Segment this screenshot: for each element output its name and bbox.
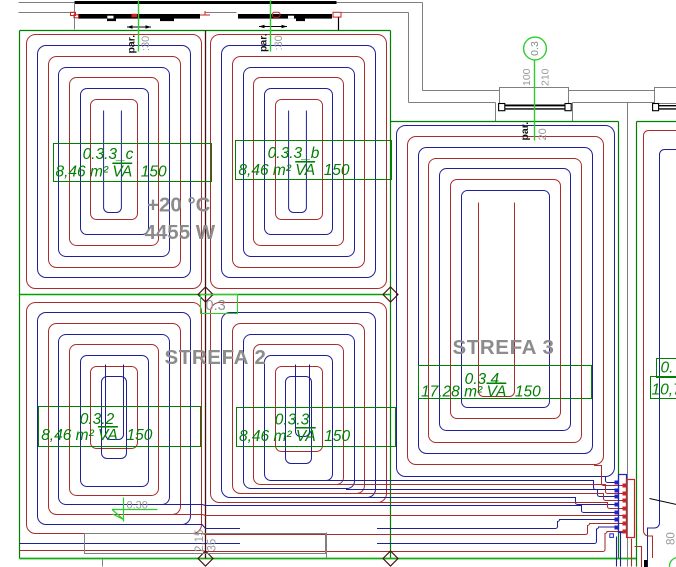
window W1 (black bar) (78, 14, 200, 19)
pipe run zone C r6 (red) (193, 524, 623, 535)
heating loop 0.3.4 ring 3 (419, 148, 593, 454)
zone E border right (green) (618, 122, 620, 559)
zone E border top (green) (391, 121, 619, 123)
svg-text:35: 35 (207, 539, 219, 552)
wall top lintel (black) (75, 1, 337, 4)
heating loop 0.3.2 ring 3 (49, 324, 181, 515)
pipe run zone D b3 (blue) (346, 490, 615, 497)
svg-text:0.3.3: 0.3.3 (275, 412, 310, 429)
manifold return bar (blue) (619, 475, 627, 533)
wall inner vertical right (408, 13, 410, 103)
wall inner horizontal right of W3 (573, 102, 676, 104)
window W3 end blocks (499, 104, 505, 111)
heating loop 0.3.3_b ring 5 (254, 78, 344, 246)
window W3 sill lines (504, 106, 567, 109)
window W4 sill lines (657, 106, 676, 109)
red tee mark on pier (200, 11, 210, 15)
circuit symbol circle 0.3 (524, 37, 547, 60)
svg-text:0.30: 0.30 (127, 500, 148, 512)
pipe run zone D b4 (blue) (367, 498, 615, 505)
window W1 tab 2 (160, 19, 174, 22)
wall reveal left of window W3 (495, 103, 497, 122)
heating loop 0.3.4 ring 2 (408, 137, 604, 465)
window W2 (black bar) (238, 14, 332, 19)
heating loop 0.3.5 (zone F) blue (648, 150, 676, 567)
manifold small open port (610, 534, 614, 538)
pipe run zone C b5 (blue) (161, 505, 615, 513)
heating loop 0.3.3_b ring 4 (244, 68, 355, 257)
node diamond mid-left (198, 287, 213, 302)
label box 0.3.3_c (54, 144, 212, 182)
bottom wall rectangle (85, 534, 326, 554)
heating loop 0.3.3 ring 7 (276, 367, 323, 452)
svg-text:0.3.2: 0.3.2 (80, 411, 115, 428)
zone border vertical x=391 (green) (390, 31, 392, 559)
room divider x=205 (dark) (205, 31, 207, 559)
wall vertical below window W2 (338, 17, 340, 31)
manifold outlet red riser (631, 539, 633, 567)
window W1 notch (107, 16, 113, 19)
heating loop 0.3.2 ring 2 (38, 313, 191, 525)
heating loop 0.3.3_b ring 1 (211, 35, 387, 289)
heating loop 0.3.3 ring 6 (265, 356, 333, 481)
svg-text:STREFA 2: STREFA 2 (165, 346, 267, 369)
heating loop 0.3.3 ring 5 (254, 345, 344, 485)
heating loop 0.3.2 ring 1 (27, 303, 202, 534)
zone border top (green) (20, 30, 391, 32)
pipe run zone D r3 (red) (356, 494, 623, 501)
pipe run zone D r4 (red) (377, 503, 623, 509)
heating loop 0.3.4 ring 4 (429, 159, 582, 443)
leader zone A (green) (138, 1, 140, 52)
heating loop 0.3.3_c center U-turn (104, 111, 122, 213)
window W4 end block (653, 104, 659, 111)
label box 0.3.3 (237, 408, 396, 447)
heating loop 0.3.3_b ring 6 (265, 89, 333, 235)
zone symbol circle bottom right (partial) (670, 558, 676, 567)
svg-text:0.: 0. (661, 360, 674, 377)
svg-text:100: 100 (521, 68, 533, 86)
heating loop 0.3.5 (zone F) outer red (644, 131, 676, 521)
svg-text:8,46 m² VA 150: 8,46 m² VA 150 (56, 164, 168, 181)
window W1 red end mark (71, 12, 76, 15)
leader zone E (green) (534, 61, 536, 141)
manifold red ports (623, 484, 628, 488)
heating loop 0.3.3_b ring 7 (276, 100, 323, 220)
window W2 tab (296, 19, 305, 22)
window W2 notch (288, 16, 294, 19)
heating loop 0.3.3_c ring 7 (91, 100, 138, 220)
heating loop 0.3.3 ring 1 (211, 303, 387, 503)
heating loop 0.3.3_c ring 4 (59, 68, 170, 257)
heating loop 0.3.4 ring 6 (451, 180, 561, 419)
wall outer segment between windows W3-W4 (569, 90, 655, 92)
pipe run zone C b6 (blue) (182, 520, 615, 529)
node diamond bottom-left (198, 551, 213, 566)
wall top inner segment right (341, 12, 409, 14)
wall vertical divider x=627 (627, 103, 629, 567)
heating loop 0.3.4 ring 7 (462, 191, 550, 408)
dimension tick below (102, 560, 104, 567)
pipe run zone D r2 (red) (335, 485, 623, 494)
heating loop 0.3.3_c ring 6 (81, 89, 149, 235)
svg-text:STREFA 3: STREFA 3 (453, 336, 555, 359)
heating loop 0.3.2 center U-turn (106, 365, 124, 440)
dimension arrow at W1 (127, 26, 151, 28)
zone F border top (green) (637, 121, 676, 123)
svg-text:10,7: 10,7 (652, 382, 676, 399)
manifold blue ports (615, 481, 619, 485)
manifold outlet blue riser 2 (616, 537, 618, 567)
drain mark (black) (644, 560, 648, 567)
svg-text:20: 20 (537, 128, 549, 140)
zone middle border (green) (20, 294, 391, 296)
bottom wall inner division (326, 533, 328, 559)
manifold red hook (635, 547, 642, 567)
label box 0.3.3_b (236, 141, 392, 180)
heating loop 0.3.3 ring 3 (233, 324, 365, 494)
manifold outlet blue riser (620, 533, 622, 567)
heating loop 0.3.4 center U-turn (479, 203, 515, 397)
wall pier segment between windows (205, 12, 237, 14)
heating loop 0.3.2 ring 4 (59, 335, 170, 505)
svg-text:17,28 m² VA 150: 17,28 m² VA 150 (421, 384, 541, 401)
svg-text:2,15: 2,15 (194, 530, 206, 552)
pipe run zone C r5 (red) (172, 515, 623, 516)
heating loop 0.3.3 ring 2 (222, 313, 376, 498)
pipe run return r7 (red) (20, 532, 623, 552)
wall inner horizontal right wing (409, 102, 496, 104)
net box 0.3 (201, 295, 238, 314)
window W1 red pipe mark (132, 14, 138, 17)
svg-text:0.3.3_b: 0.3.3_b (268, 145, 320, 162)
heating loop 0.3.2 ring 7 (91, 367, 138, 449)
window W2 red mark left (273, 12, 281, 17)
window W2 red mark right (333, 12, 341, 17)
heating loop 0.3.2 ring 6 (81, 356, 149, 487)
svg-text:par.: par. (258, 33, 270, 52)
heating loop 0.3.3 center U-turn (296, 365, 310, 437)
heating loop 0.3.4 ring 1 (397, 126, 615, 477)
pipe run zone E supply (red) (594, 466, 623, 486)
heating loop 0.3.2 ring 5 (70, 345, 159, 496)
label box 0.3.2 (39, 407, 201, 447)
wall top outer line (19, 2, 423, 4)
label box 0.3.5 area (partial) (651, 377, 676, 399)
svg-text:0.3.3_c: 0.3.3_c (83, 146, 134, 163)
svg-text:4455 W: 4455 W (145, 221, 216, 244)
zone F border left (green) (636, 122, 638, 567)
heating loop 0.3.3 ring 8 (286, 377, 312, 464)
node diamond bottom-right (383, 551, 398, 566)
leader zone B (green) (270, 1, 272, 52)
svg-text:0.3: 0.3 (529, 41, 541, 56)
wall outer top-right horizontal (423, 90, 501, 92)
heating loop 0.3.5 red return hook (644, 520, 653, 558)
manifold supply bar (red) (627, 480, 635, 538)
wall reveal right of window W3 (572, 103, 574, 122)
node diamond mid-right (383, 287, 398, 302)
window W1 tab (107, 19, 116, 22)
window W4 frame (655, 88, 676, 104)
wall outer vertical right (422, 3, 424, 91)
svg-text:210: 210 (540, 68, 552, 86)
zone border left (green) (19, 31, 21, 559)
pipe run zone D b2 (blue) (324, 481, 615, 490)
svg-text:0.3: 0.3 (206, 298, 226, 314)
svg-text:par.: par. (519, 122, 531, 141)
heating loop 0.3.2 ring 8 (102, 377, 127, 459)
level marker 0.30 (green flag) (112, 498, 158, 522)
wall top inner segment left (19, 12, 75, 14)
svg-text:8,46 m² VA 150: 8,46 m² VA 150 (238, 162, 350, 179)
heating loop 0.3.3_b ring 2 (222, 46, 376, 278)
heating loop 0.3.3_c ring 5 (70, 78, 159, 246)
window W3 frame (500, 88, 569, 105)
pipe run zone E return (blue) (606, 477, 615, 483)
heating loop 0.3.3 ring 4 (244, 335, 355, 489)
heating loop 0.3.3_b ring 3 (233, 57, 365, 268)
heating loop 0.3.4 ring 5 (440, 169, 571, 431)
svg-text:par.: par. (126, 35, 138, 54)
svg-text:+20 °C: +20 °C (147, 194, 211, 217)
svg-text::30: :30 (273, 35, 285, 50)
zone border bottom (green) (20, 558, 637, 560)
heating loop 0.3.3_c ring 2 (38, 46, 191, 278)
pipe run return b7 (blue) (20, 527, 615, 544)
svg-text:80: 80 (666, 532, 676, 545)
svg-text::30: :30 (140, 36, 152, 51)
heating loop 0.3.3_c ring 1 (27, 35, 202, 289)
label box 0.3.5 (partial) (657, 359, 676, 378)
svg-text:8,46 m² VA 150: 8,46 m² VA 150 (41, 427, 153, 444)
svg-text:8,46 m² VA 150: 8,46 m² VA 150 (239, 428, 351, 445)
wall vertical left of window W1 (74, 3, 76, 30)
leader line (black) (650, 499, 676, 505)
dimension arrow at W2 (259, 26, 287, 28)
heating loop 0.3.3_c ring 3 (49, 57, 181, 268)
label box 0.3.4 (419, 366, 592, 399)
heating loop 0.3.3_b center U-turn (289, 111, 307, 213)
